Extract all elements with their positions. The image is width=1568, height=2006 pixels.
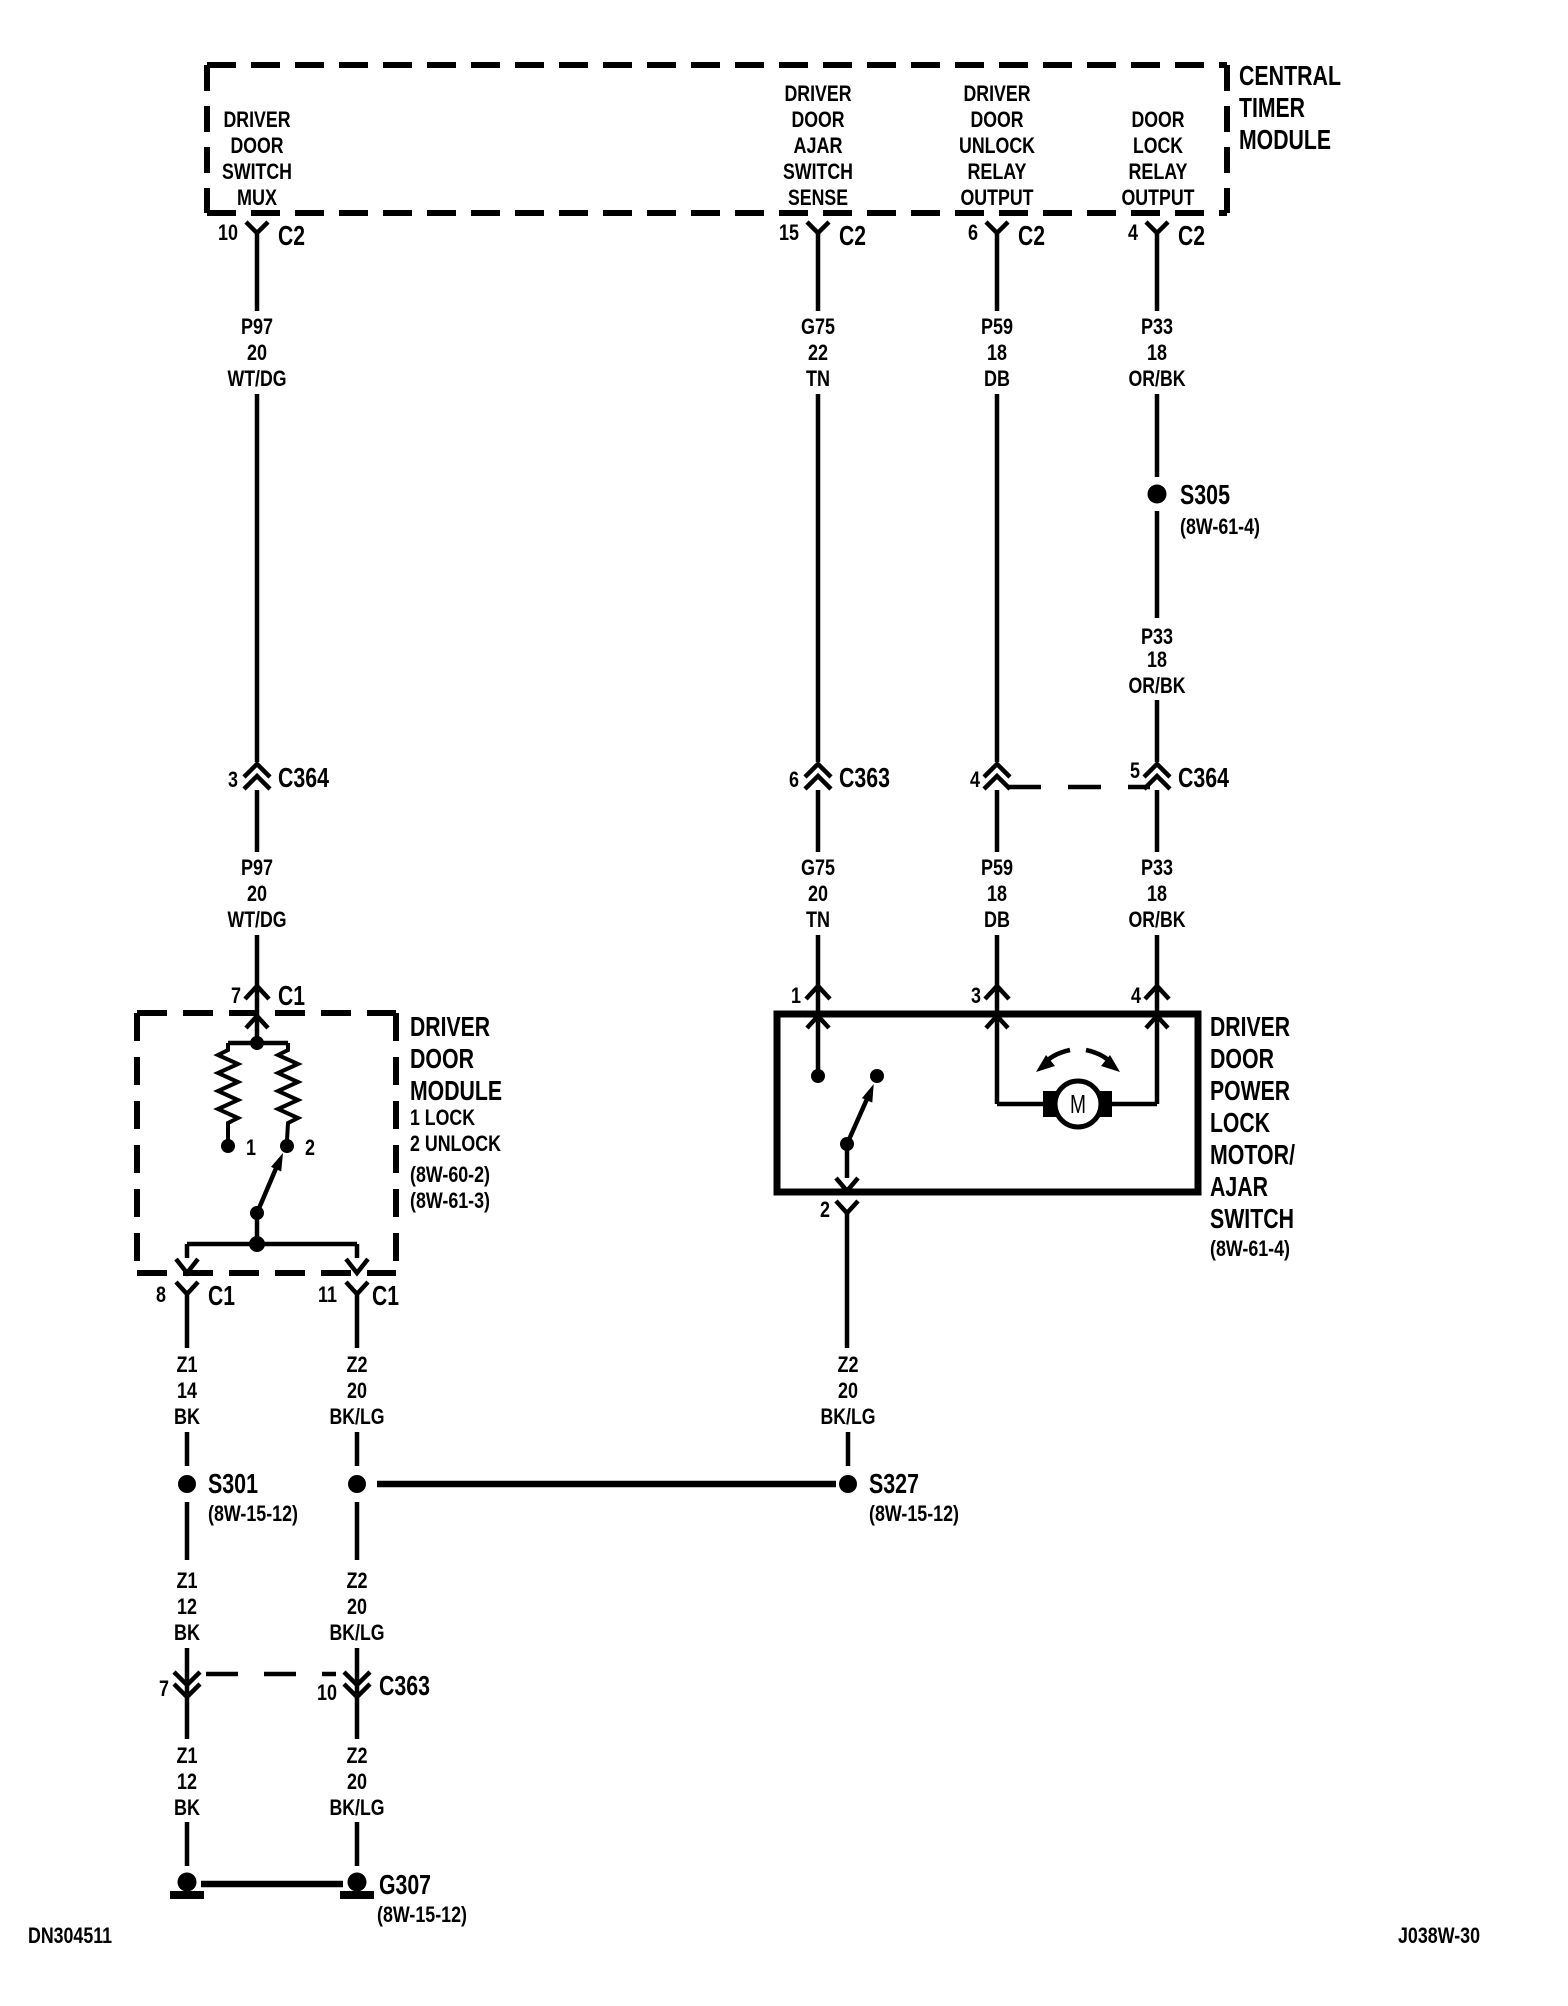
svg-text:22: 22: [808, 340, 828, 365]
wire G75 segment mid: [816, 394, 821, 762]
svg-text:7: 7: [159, 1676, 169, 1701]
svg-text:DOOR: DOOR: [410, 1043, 474, 1074]
wire P59 segment from pin 6: [995, 233, 1000, 311]
svg-text:DRIVER: DRIVER: [1210, 1011, 1290, 1042]
svg-text:3: 3: [228, 767, 238, 792]
svg-text:DN304511: DN304511: [28, 1923, 112, 1948]
svg-text:MODULE: MODULE: [410, 1075, 502, 1106]
wire Z2 pin2 to S327: [846, 1432, 851, 1466]
svg-text:(8W-61-3): (8W-61-3): [410, 1188, 490, 1213]
pin 3 chevron: [985, 986, 1009, 999]
svg-text:AJAR: AJAR: [794, 133, 843, 158]
motor brush left: [1043, 1091, 1056, 1117]
svg-text:20: 20: [247, 881, 267, 906]
svg-text:(8W-61-4): (8W-61-4): [1180, 514, 1260, 539]
svg-text:BK/LG: BK/LG: [330, 1404, 385, 1429]
rotation arrowhead right: [1101, 1055, 1120, 1072]
svg-text:18: 18: [1147, 647, 1167, 672]
svg-text:1: 1: [791, 983, 801, 1008]
svg-text:BK: BK: [174, 1404, 200, 1429]
svg-text:6: 6: [968, 220, 978, 245]
svg-text:OR/BK: OR/BK: [1129, 673, 1186, 698]
svg-text:14: 14: [177, 1378, 198, 1403]
entry arrowhead into driver door module: [246, 1016, 268, 1028]
wire G75 segment from pin 15: [816, 233, 821, 311]
svg-text:CENTRAL: CENTRAL: [1239, 60, 1341, 91]
module box DRIVER DOOR POWER LOCK MOTOR/AJAR SWITCH (solid): [777, 1014, 1198, 1192]
junction wire to resistors: [228, 1041, 288, 1046]
svg-text:15: 15: [779, 220, 799, 245]
svg-text:SENSE: SENSE: [788, 185, 848, 210]
connector pin 6 C2 (Y fork): [986, 222, 1008, 233]
svg-text:Z2: Z2: [347, 1568, 368, 1593]
svg-text:Z2: Z2: [838, 1352, 859, 1377]
wire pin 3 to motor: [997, 1102, 1043, 1107]
ajar switch arm: [847, 1099, 867, 1144]
svg-text:BK/LG: BK/LG: [330, 1795, 385, 1820]
svg-text:20: 20: [347, 1594, 367, 1619]
svg-text:DRIVER: DRIVER: [410, 1011, 490, 1042]
svg-text:Z1: Z1: [177, 1743, 198, 1768]
entry arrowhead pin 3: [986, 1016, 1008, 1028]
svg-text:SWITCH: SWITCH: [783, 159, 853, 184]
svg-text:AJAR: AJAR: [1210, 1171, 1268, 1202]
svg-text:BK: BK: [174, 1620, 200, 1645]
svg-text:WT/DG: WT/DG: [228, 907, 287, 932]
svg-text:OR/BK: OR/BK: [1129, 907, 1186, 932]
wire Z1 S301 down: [185, 1502, 190, 1560]
svg-text:DOOR: DOOR: [231, 133, 284, 158]
svg-text:18: 18: [1147, 881, 1167, 906]
svg-text:(8W-15-12): (8W-15-12): [208, 1501, 298, 1526]
svg-text:C2: C2: [278, 220, 305, 251]
wire P59 segment below C364: [995, 790, 1000, 852]
svg-text:2: 2: [305, 1135, 315, 1160]
junction dot driver door module top: [250, 1036, 264, 1050]
pin 1 chevron: [806, 986, 830, 999]
pin 7 C1 chevron: [245, 986, 269, 999]
wire pin 4 to motor: [1112, 1102, 1157, 1107]
svg-text:C1: C1: [372, 1280, 399, 1311]
svg-text:(8W-60-2): (8W-60-2): [410, 1162, 490, 1187]
svg-text:18: 18: [987, 881, 1007, 906]
wire P97 segment to pin 7 C1: [255, 935, 260, 1043]
wire P33 segment to C364: [1155, 700, 1160, 762]
ground bar left: [170, 1891, 204, 1899]
svg-text:C2: C2: [839, 220, 866, 251]
svg-text:4: 4: [970, 767, 981, 792]
wire Z2 from pin 11: [355, 1294, 360, 1348]
svg-text:18: 18: [987, 340, 1007, 365]
svg-text:C1: C1: [208, 1280, 235, 1311]
ajar switch wire down: [845, 1144, 850, 1178]
svg-text:DOOR: DOOR: [971, 107, 1024, 132]
splice junction dot: [348, 1475, 366, 1493]
svg-text:4: 4: [1128, 220, 1139, 245]
dashed link between connector 4 and 5 C364: [1008, 785, 1150, 790]
connector pin 15 C2 (Y fork): [807, 222, 829, 233]
wire Z1 to connector 7 C363: [185, 1648, 190, 1739]
pin 4 chevron: [1145, 986, 1169, 999]
exit arrowhead pin 11: [346, 1259, 368, 1273]
rotation arrow right arc: [1086, 1050, 1112, 1064]
ajar switch pivot dot: [840, 1137, 854, 1151]
svg-text:P33: P33: [1141, 855, 1173, 880]
module box CENTRAL TIMER MODULE (dashed): [207, 62, 1227, 68]
svg-text:Z2: Z2: [347, 1352, 368, 1377]
splice dot S301: [178, 1475, 196, 1493]
svg-text:LOCK: LOCK: [1210, 1107, 1270, 1138]
splice dot S327: [839, 1475, 857, 1493]
entry arrowhead pin 4: [1146, 1016, 1168, 1028]
svg-text:DOOR: DOOR: [792, 107, 845, 132]
svg-text:G307: G307: [379, 1869, 431, 1900]
wire Z2 splice down: [355, 1502, 360, 1560]
svg-text:11: 11: [318, 1282, 337, 1307]
ground bus G307: [201, 1881, 343, 1888]
svg-text:M: M: [1070, 1089, 1086, 1119]
wire Z1 to ground: [185, 1822, 190, 1866]
ground dot left: [178, 1873, 197, 1892]
svg-text:SWITCH: SWITCH: [1210, 1203, 1294, 1234]
svg-text:10: 10: [218, 220, 238, 245]
svg-text:OUTPUT: OUTPUT: [1122, 185, 1195, 210]
svg-text:RELAY: RELAY: [968, 159, 1027, 184]
svg-text:RELAY: RELAY: [1129, 159, 1188, 184]
svg-text:MODULE: MODULE: [1239, 124, 1331, 155]
connector pin 4 C2 (Y fork): [1146, 222, 1168, 233]
svg-text:DB: DB: [984, 907, 1010, 932]
entry arrowhead pin 1: [807, 1016, 829, 1028]
svg-text:C364: C364: [1178, 762, 1229, 793]
svg-text:3: 3: [971, 983, 981, 1008]
connector pin 11 C1 (Y fork): [346, 1282, 368, 1294]
connector 5 C364 (double chevron): [1144, 764, 1170, 789]
svg-text:6: 6: [789, 767, 799, 792]
wire P97 segment from pin 10: [255, 233, 260, 311]
svg-text:4: 4: [1131, 983, 1142, 1008]
svg-text:DRIVER: DRIVER: [224, 107, 291, 132]
wire to pin 11: [355, 1244, 360, 1258]
svg-text:7: 7: [231, 983, 241, 1008]
dashed link between connector 7 and 10: [206, 1672, 336, 1677]
splice bus S327: [377, 1481, 836, 1488]
svg-text:DOOR: DOOR: [1210, 1043, 1274, 1074]
svg-text:LOCK: LOCK: [1133, 133, 1183, 158]
svg-text:1: 1: [246, 1135, 256, 1160]
svg-text:TN: TN: [806, 366, 830, 391]
splice dot S305: [1148, 485, 1167, 504]
wire Z2 to connector 10 C363: [355, 1648, 360, 1739]
ajar switch dot pin1: [811, 1069, 825, 1083]
connector 10 C363 (double chevron down): [344, 1672, 370, 1697]
ajar switch arm arrowhead: [862, 1084, 874, 1103]
ground bar right: [340, 1891, 374, 1899]
svg-text:C2: C2: [1018, 220, 1045, 251]
connector pin 10 C2 (Y fork): [246, 222, 268, 233]
exit arrowhead pin 2: [836, 1178, 858, 1191]
wire G75 segment to pin 1: [816, 935, 821, 1070]
svg-text:MOTOR/: MOTOR/: [1210, 1139, 1295, 1170]
svg-text:Z1: Z1: [177, 1568, 198, 1593]
svg-text:P59: P59: [981, 314, 1013, 339]
svg-text:BK/LG: BK/LG: [330, 1620, 385, 1645]
wire Z1 pin8 to S301: [185, 1432, 190, 1466]
svg-text:20: 20: [808, 881, 828, 906]
svg-text:P33: P33: [1141, 624, 1173, 649]
svg-text:OUTPUT: OUTPUT: [961, 185, 1034, 210]
svg-text:20: 20: [247, 340, 267, 365]
wire Z2 to ground: [355, 1822, 360, 1866]
svg-text:12: 12: [177, 1594, 197, 1619]
wire P97 segment below C364: [255, 790, 260, 852]
svg-text:(8W-15-12): (8W-15-12): [377, 1902, 467, 1927]
svg-text:P59: P59: [981, 855, 1013, 880]
svg-text:DRIVER: DRIVER: [785, 81, 852, 106]
svg-text:S301: S301: [208, 1468, 258, 1499]
wire Z2 pin11 to splice: [355, 1432, 360, 1466]
svg-text:20: 20: [347, 1769, 367, 1794]
wire P33 segment to pin 4 motor: [1155, 935, 1160, 1104]
wire P97 segment mid: [255, 394, 260, 762]
svg-text:P33: P33: [1141, 314, 1173, 339]
connector 4 C364 (double chevron): [984, 764, 1010, 789]
svg-text:(8W-15-12): (8W-15-12): [869, 1501, 959, 1526]
svg-text:10: 10: [317, 1680, 337, 1705]
wire P33 segment from pin 4: [1155, 233, 1160, 311]
svg-text:G75: G75: [801, 314, 835, 339]
switch arm arrowhead (driver door module): [271, 1153, 283, 1172]
svg-text:WT/DG: WT/DG: [228, 366, 287, 391]
svg-text:S305: S305: [1180, 479, 1230, 510]
connector 6 C363 (double chevron): [805, 764, 831, 789]
svg-text:Z2: Z2: [347, 1743, 368, 1768]
svg-text:C363: C363: [379, 1670, 430, 1701]
svg-text:UNLOCK: UNLOCK: [959, 133, 1035, 158]
svg-text:POWER: POWER: [1210, 1075, 1290, 1106]
wire P33 segment through S305: [1155, 394, 1160, 477]
motor circle: [1055, 1081, 1101, 1127]
svg-text:J038W-30: J038W-30: [1398, 1923, 1480, 1948]
svg-text:SWITCH: SWITCH: [222, 159, 292, 184]
svg-text:Z1: Z1: [177, 1352, 198, 1377]
wire P33 below S305: [1155, 511, 1160, 618]
svg-text:BK/LG: BK/LG: [821, 1404, 876, 1429]
svg-text:8: 8: [156, 1282, 166, 1307]
junction horizontal wire: [187, 1242, 357, 1247]
svg-text:2 UNLOCK: 2 UNLOCK: [410, 1131, 501, 1156]
svg-text:12: 12: [177, 1769, 197, 1794]
svg-text:OR/BK: OR/BK: [1129, 366, 1186, 391]
terminal dot 1: [221, 1139, 235, 1153]
ajar switch contact dot: [870, 1069, 884, 1083]
exit arrowhead pin 8: [176, 1259, 198, 1273]
wire P33 segment below C364: [1155, 790, 1160, 852]
svg-text:18: 18: [1147, 340, 1167, 365]
svg-text:MUX: MUX: [237, 185, 277, 210]
svg-text:2: 2: [820, 1197, 830, 1222]
switch arm in driver door module: [257, 1166, 277, 1213]
svg-text:DRIVER: DRIVER: [964, 81, 1031, 106]
switch pivot dot (driver door module): [250, 1206, 264, 1220]
svg-text:20: 20: [347, 1378, 367, 1403]
connector 3 C364 (double chevron): [244, 764, 270, 789]
svg-text:TIMER: TIMER: [1239, 92, 1305, 123]
svg-text:S327: S327: [869, 1468, 919, 1499]
wire P59 segment mid: [995, 394, 1000, 762]
svg-text:5: 5: [1130, 758, 1140, 783]
rotation arrow left arc: [1044, 1050, 1070, 1064]
svg-text:C1: C1: [278, 980, 305, 1011]
wire Z2 from pin 2: [845, 1213, 850, 1348]
svg-text:TN: TN: [806, 907, 830, 932]
svg-text:P97: P97: [241, 314, 273, 339]
connector pin 2 (Y fork): [836, 1201, 858, 1213]
wire to pin 8: [185, 1244, 190, 1258]
ground dot right G307: [348, 1873, 367, 1892]
svg-text:BK: BK: [174, 1795, 200, 1820]
resistor 1 (lock): [218, 1043, 238, 1140]
wire G75 segment below C363: [816, 790, 821, 852]
svg-text:C363: C363: [839, 762, 890, 793]
svg-text:(8W-61-4): (8W-61-4): [1210, 1236, 1290, 1261]
svg-text:DB: DB: [984, 366, 1010, 391]
rotation arrowhead left: [1036, 1055, 1055, 1072]
resistor 2 (unlock): [278, 1043, 298, 1140]
svg-text:DOOR: DOOR: [1132, 107, 1185, 132]
terminal dot 2: [280, 1139, 294, 1153]
wire Z1 from pin 8: [185, 1294, 190, 1348]
motor brush right: [1099, 1091, 1112, 1117]
svg-text:C364: C364: [278, 762, 329, 793]
svg-text:P97: P97: [241, 855, 273, 880]
svg-text:1 LOCK: 1 LOCK: [410, 1105, 475, 1130]
svg-text:C2: C2: [1178, 220, 1205, 251]
svg-text:20: 20: [838, 1378, 858, 1403]
connector 7 C363 (double chevron down): [174, 1672, 200, 1697]
connector pin 8 C1 (Y fork): [176, 1282, 198, 1294]
junction dot driver door module bottom: [249, 1236, 265, 1252]
wire P59 segment to pin 3: [995, 935, 1000, 1104]
svg-text:G75: G75: [801, 855, 835, 880]
switch wire down to junction: [255, 1213, 260, 1244]
module box DRIVER DOOR MODULE (dashed): [137, 1010, 396, 1016]
